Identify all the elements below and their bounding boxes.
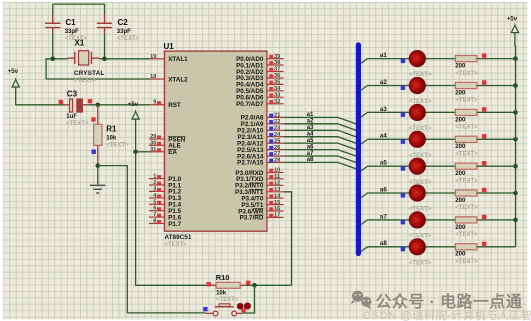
resistor R8 200 <box>455 217 477 223</box>
resistor R6 terminal marker <box>482 161 486 165</box>
svg-text:10: 10 <box>274 168 280 174</box>
resistor R10 <box>208 284 246 286</box>
svg-text:C3: C3 <box>67 90 78 99</box>
junction rail row 6 <box>513 191 518 196</box>
wire R4 to +5v rail <box>477 111 516 113</box>
resistor R2 terminal marker <box>482 53 486 57</box>
resistor R6 200 <box>455 163 477 169</box>
svg-text:25: 25 <box>274 138 280 144</box>
svg-text:37: 37 <box>274 67 280 73</box>
pin 27 P2.6/A14 <box>267 155 284 157</box>
svg-text:<TEXT>: <TEXT> <box>455 232 478 238</box>
svg-text:1: 1 <box>153 174 156 180</box>
junction RST/R1 <box>96 103 101 108</box>
svg-text:a5: a5 <box>380 160 387 167</box>
pin 36 P0.3/AD3 <box>267 77 284 79</box>
ground <box>90 185 106 193</box>
wire C3 to RST <box>88 104 150 106</box>
pin 31 EA <box>149 151 165 153</box>
resistor R2 200 <box>455 56 477 62</box>
svg-text:P0.7/AD7: P0.7/AD7 <box>236 101 264 108</box>
wire crystal left to XTAL2 <box>46 59 150 79</box>
svg-text:<TEXT>: <TEXT> <box>455 71 478 77</box>
push button <box>206 304 243 316</box>
LED D6 <box>409 184 426 201</box>
svg-text:<TEXT>: <TEXT> <box>409 207 432 213</box>
svg-text:<TEXT>: <TEXT> <box>66 121 89 127</box>
svg-text:a4: a4 <box>380 133 387 140</box>
svg-text:9: 9 <box>153 100 156 106</box>
wire node down to button <box>242 285 254 313</box>
pin 11 P3.1/TXD <box>267 178 284 180</box>
svg-text:<TEXT>: <TEXT> <box>216 297 239 303</box>
junction R10/button <box>252 283 257 288</box>
wire P2.0 to bus / node a1 <box>284 117 356 123</box>
pin 24 P2.3/A11 <box>267 136 284 138</box>
svg-text:<TEXT>: <TEXT> <box>409 234 432 240</box>
wire C1-C2 top rail <box>53 3 105 5</box>
svg-text:35: 35 <box>274 80 280 86</box>
svg-text:R1: R1 <box>106 124 117 133</box>
resistor R9 200 <box>455 244 477 250</box>
svg-text:<TEXT>: <TEXT> <box>165 242 188 248</box>
svg-text:<TEXT>: <TEXT> <box>409 99 432 105</box>
wire bus to LED D1 <box>361 59 455 64</box>
svg-text:200: 200 <box>455 198 466 204</box>
resistor R7 terminal marker <box>482 188 486 192</box>
svg-text:15: 15 <box>274 200 280 206</box>
svg-text:a2: a2 <box>380 79 387 86</box>
resistor R4 terminal marker <box>482 107 486 111</box>
LED D7 terminal marker <box>401 220 405 224</box>
wire R10 to P3.3 node <box>246 284 291 286</box>
svg-text:C1: C1 <box>65 18 76 27</box>
svg-text:33: 33 <box>274 93 280 99</box>
resistor R8 terminal marker <box>482 215 486 219</box>
svg-text:EA: EA <box>168 149 177 156</box>
pin 16 P3.6/WR <box>267 210 284 212</box>
wire C1 top drop <box>52 4 54 15</box>
svg-text:XTAL2: XTAL2 <box>168 76 188 83</box>
junction EA/+5v <box>133 150 138 155</box>
svg-text:P1.7: P1.7 <box>168 221 181 228</box>
pin 23 P2.2/A10 <box>267 129 284 131</box>
pin 5 P1.4 <box>149 203 165 205</box>
LED D6 terminal marker <box>401 193 405 197</box>
svg-text:<TEXT>: <TEXT> <box>455 259 478 265</box>
LED D8 <box>409 238 426 255</box>
pin 35 P0.4/AD4 <box>267 83 284 85</box>
wire P2.1 to bus / node a2 <box>284 124 356 130</box>
pin 17 P3.7/RD <box>267 216 284 218</box>
junction rail row 2 <box>513 83 518 88</box>
svg-text:14: 14 <box>274 193 281 199</box>
pin 25 P2.4/A12 <box>267 142 284 144</box>
op-amp U1 AT89C51 body <box>165 51 267 231</box>
capacitor C3 <box>64 99 89 112</box>
pin 6 P1.5 <box>149 210 165 212</box>
wire bus to LED D4 <box>361 139 455 144</box>
junction rail row 7 <box>513 218 518 223</box>
svg-text:5: 5 <box>153 199 156 205</box>
pin 2 P1.1 <box>149 184 165 186</box>
pin 34 P0.5/AD5 <box>267 90 284 92</box>
svg-text:CSDN @瑞科院-计算机与人工智能: CSDN @瑞科院-计算机与人工智能 <box>363 308 531 321</box>
pin 15 P3.5/T1 <box>267 204 284 206</box>
pin 29 PSEN <box>149 138 165 140</box>
pin 10 P3.0/RXD <box>267 172 284 174</box>
resistor R5 terminal marker <box>482 134 486 138</box>
svg-text:7: 7 <box>153 212 156 218</box>
svg-text:33pF: 33pF <box>117 29 131 35</box>
LED D4 terminal marker <box>401 139 405 143</box>
svg-text:6: 6 <box>153 206 156 212</box>
LED D2 terminal marker <box>401 86 405 90</box>
pin 39 P0.0/AD0 <box>267 58 284 60</box>
R1 top lead <box>97 105 99 125</box>
junction rail row 3 <box>513 110 518 115</box>
wire R9 to +5v rail <box>477 246 516 248</box>
LED D3 terminal marker <box>401 113 405 117</box>
svg-text:22: 22 <box>274 119 280 125</box>
wire P2.3 to bus / node a4 <box>284 137 356 143</box>
button terminal marker <box>203 307 207 311</box>
wire EA to +5v <box>136 151 150 153</box>
LED D2 <box>409 77 426 94</box>
pin 19 XTAL1 <box>149 58 165 60</box>
svg-text:32: 32 <box>274 99 280 105</box>
svg-text:24: 24 <box>274 132 281 138</box>
wire P2.5 to bus / node a6 <box>284 150 356 156</box>
wire R2 to +5v rail <box>477 58 516 60</box>
pin 28 P2.7/A15 <box>267 161 284 163</box>
svg-text:30: 30 <box>150 140 156 146</box>
R10 terminal markers <box>207 282 211 286</box>
resistor R9 terminal marker <box>482 242 486 246</box>
svg-text:P2.7/A15: P2.7/A15 <box>237 160 264 167</box>
R1 bottom lead <box>97 145 99 165</box>
svg-text:a1: a1 <box>380 52 387 59</box>
svg-text:<TEXT>: <TEXT> <box>455 98 478 104</box>
junction C1/crystal-left <box>50 57 55 62</box>
svg-text:10k: 10k <box>216 291 227 297</box>
svg-text:CRYSTAL: CRYSTAL <box>74 70 105 77</box>
wire P2.7 to bus / node a8 <box>284 162 356 168</box>
wire R5 to +5v rail <box>477 138 516 140</box>
svg-text:200: 200 <box>455 144 466 150</box>
pin 8 P1.7 <box>149 223 165 225</box>
R1 terminal markers <box>91 117 95 121</box>
svg-text:a8: a8 <box>380 240 387 247</box>
wire bus to LED D7 <box>361 220 455 225</box>
svg-text:13: 13 <box>274 187 280 193</box>
wire ground run to button <box>98 166 206 313</box>
pin 22 P2.1/A9 <box>267 123 284 125</box>
svg-text:200: 200 <box>455 171 466 177</box>
svg-text:33pF: 33pF <box>65 29 79 35</box>
svg-text:17: 17 <box>274 213 280 219</box>
junction C2/crystal-right <box>102 57 107 62</box>
watermark logo <box>351 291 372 310</box>
svg-text:U1: U1 <box>164 42 175 51</box>
svg-text:2: 2 <box>153 180 156 186</box>
resistor R5 200 <box>455 136 477 142</box>
wire crystal right to XTAL1 <box>100 58 150 60</box>
svg-text:RST: RST <box>168 102 181 109</box>
svg-text:a6: a6 <box>380 186 387 193</box>
pin 13 P3.3/INT1 <box>267 191 284 193</box>
svg-text:<TEXT>: <TEXT> <box>455 178 478 184</box>
svg-text:10k: 10k <box>106 135 117 141</box>
svg-text:11: 11 <box>274 174 280 180</box>
pin 30 ALE <box>149 144 165 146</box>
pin 3 P1.2 <box>149 190 165 192</box>
svg-text:<TEXT>: <TEXT> <box>455 152 478 158</box>
pin 4 P1.3 <box>149 197 165 199</box>
svg-text:28: 28 <box>274 158 280 164</box>
bus (blue) <box>356 45 361 254</box>
svg-text:29: 29 <box>150 134 156 140</box>
resistor R3 200 <box>455 82 477 88</box>
wire P2.2 to bus / node a3 <box>284 130 356 136</box>
svg-text:200: 200 <box>455 117 466 123</box>
resistor R7 200 <box>455 190 477 196</box>
LED D5 <box>409 158 426 175</box>
svg-text:X1: X1 <box>75 38 85 47</box>
svg-text:<TEXT>: <TEXT> <box>455 125 478 131</box>
pin 32 P0.7/AD7 <box>267 103 284 105</box>
capacitor C2 <box>97 15 112 34</box>
wire R6 to +5v rail <box>477 165 516 167</box>
wire bus to LED D5 <box>361 166 455 171</box>
pin 38 P0.1/AD1 <box>267 64 284 66</box>
LED D5 terminal marker <box>401 166 405 170</box>
svg-text:公众号 · 电路一点通: 公众号 · 电路一点通 <box>376 292 523 311</box>
svg-text:19: 19 <box>150 54 156 60</box>
svg-text:a3: a3 <box>380 106 387 113</box>
svg-text:12: 12 <box>274 181 280 187</box>
pin 26 P2.5/A13 <box>267 149 284 151</box>
LED D8 terminal marker <box>401 247 405 251</box>
svg-text:38: 38 <box>274 60 280 66</box>
svg-text:34: 34 <box>274 86 281 92</box>
pin 12 P3.2/INT0 <box>267 184 284 186</box>
LED D1 <box>409 50 426 67</box>
wire C1 bottom to node <box>52 34 54 59</box>
svg-text:<TEXT>: <TEXT> <box>409 260 432 266</box>
wire +5v down to R10 <box>136 119 208 285</box>
pin 21 P2.0/A8 <box>267 116 284 118</box>
wire C2 bottom to node <box>104 34 106 59</box>
svg-text:200: 200 <box>455 252 466 258</box>
svg-text:16: 16 <box>274 206 280 212</box>
svg-text:<TEXT>: <TEXT> <box>409 126 432 132</box>
svg-text:a7: a7 <box>380 213 387 220</box>
svg-text:+5v: +5v <box>507 16 518 23</box>
svg-text:23: 23 <box>274 126 280 132</box>
svg-text:<TEXT>: <TEXT> <box>455 205 478 211</box>
svg-text:<TEXT>: <TEXT> <box>117 36 140 42</box>
wire R3 to +5v rail <box>477 85 516 87</box>
pin 37 P0.2/AD2 <box>267 71 284 73</box>
svg-text:XTAL1: XTAL1 <box>168 56 188 63</box>
svg-text:1uF: 1uF <box>66 114 77 120</box>
wire +5v rail <box>514 32 517 247</box>
junction rail row 1 <box>513 56 518 61</box>
junction rail row 4 <box>513 137 518 142</box>
pin 1 P1.0 <box>149 178 165 180</box>
wire bus to LED D8 <box>361 247 455 252</box>
wire P2.4 to bus / node a5 <box>284 143 356 149</box>
pin 7 P1.6 <box>149 216 165 218</box>
wire bus to LED D6 <box>361 193 455 198</box>
svg-text:31: 31 <box>150 147 156 153</box>
svg-text:21: 21 <box>274 113 280 119</box>
svg-text:AT89C51: AT89C51 <box>165 234 192 241</box>
wire R1 to ground <box>97 166 99 185</box>
wire +5v to C3 <box>16 87 64 105</box>
svg-text:R10: R10 <box>216 273 230 282</box>
LED D3 <box>409 104 426 121</box>
svg-text:<TEXT>: <TEXT> <box>409 180 432 186</box>
junction rail row 5 <box>513 164 518 169</box>
svg-text:+5v: +5v <box>128 101 139 108</box>
resistor R3 terminal marker <box>482 80 486 84</box>
button actuator dots <box>237 303 244 310</box>
svg-text:39: 39 <box>274 54 280 60</box>
svg-text:<TEXT>: <TEXT> <box>74 78 97 84</box>
C3 terminal markers <box>59 100 63 104</box>
wire R7 to +5v rail <box>477 192 516 194</box>
svg-text:<TEXT>: <TEXT> <box>409 72 432 78</box>
svg-text:P3.7/RD: P3.7/RD <box>240 215 264 222</box>
wire P2.6 to bus / node a7 <box>284 156 356 162</box>
svg-text:26: 26 <box>274 145 280 151</box>
svg-text:3: 3 <box>153 186 156 192</box>
pin 14 P3.4/T0 <box>267 197 284 199</box>
svg-text:36: 36 <box>274 73 280 79</box>
svg-text:18: 18 <box>150 74 156 80</box>
wire C2 top drop <box>104 4 106 15</box>
LED D4 <box>409 131 426 148</box>
svg-text:a8: a8 <box>307 156 314 163</box>
svg-text:200: 200 <box>455 225 466 231</box>
svg-text:C2: C2 <box>118 18 129 27</box>
svg-text:<TEXT>: <TEXT> <box>106 142 129 148</box>
wire R8 to +5v rail <box>477 219 516 221</box>
capacitor C1 <box>45 15 60 34</box>
crystal X1 <box>68 51 100 65</box>
svg-text:<TEXT>: <TEXT> <box>409 153 432 159</box>
pin 33 P0.6/AD6 <box>267 96 284 98</box>
wire bus to LED D2 <box>361 86 455 91</box>
wire bus to LED D3 <box>361 112 455 117</box>
svg-text:200: 200 <box>455 90 466 96</box>
pin 18 XTAL2 <box>149 78 165 80</box>
svg-text:8: 8 <box>153 219 156 225</box>
svg-text:+5v: +5v <box>8 68 19 75</box>
resistor R4 200 <box>455 109 477 115</box>
wire P3.3 down to R10 node <box>284 192 292 285</box>
junction R1/ground <box>96 163 101 168</box>
svg-text:27: 27 <box>274 151 280 157</box>
LED D7 <box>409 211 426 228</box>
LED D1 terminal marker <box>401 59 405 63</box>
svg-text:200: 200 <box>455 64 466 70</box>
pin 9 RST <box>149 104 165 106</box>
